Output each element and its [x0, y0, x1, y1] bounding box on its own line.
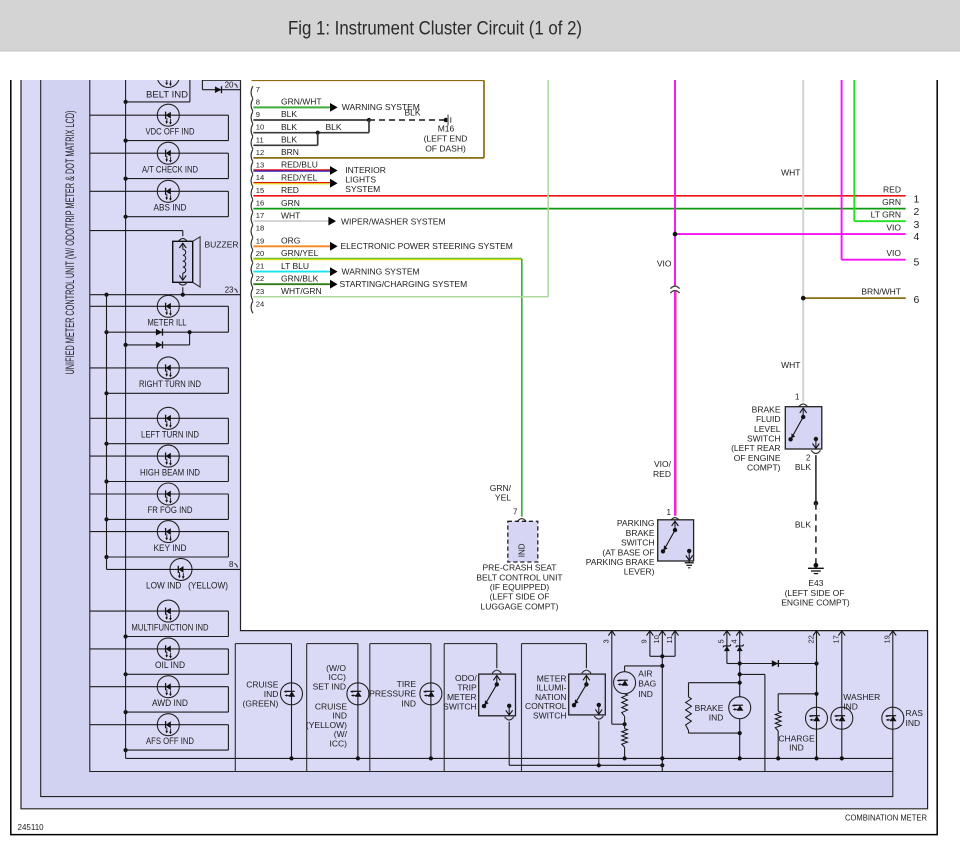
wire pin 22 GRN/BLK — [253, 283, 330, 285]
connector pin 20 bracket — [251, 250, 253, 262]
label CHARGE IND — [778, 733, 815, 752]
wire pin 19 ORG — [253, 245, 330, 247]
svg-text:IND: IND — [906, 718, 921, 728]
svg-text:SWITCH: SWITCH — [443, 701, 477, 711]
lamp LOW IND — [170, 558, 192, 580]
arrow to starting/charging (pin 22) — [330, 280, 338, 289]
wire BLK from brake fluid switch — [815, 455, 817, 503]
svg-text:HIGH BEAM IND: HIGH BEAM IND — [140, 467, 200, 477]
svg-text:WHT: WHT — [781, 360, 800, 370]
svg-text:CRUISE: CRUISE — [246, 680, 278, 690]
wire pin 3 stub — [612, 631, 625, 724]
lamp KEY IND — [157, 521, 179, 543]
svg-text:PARKING BRAKE: PARKING BRAKE — [586, 557, 655, 567]
bottom section top edge 2 — [307, 643, 358, 645]
svg-text:RIGHT TURN IND: RIGHT TURN IND — [139, 379, 201, 389]
svg-text:SWITCH: SWITCH — [533, 711, 567, 721]
node brake branch a — [738, 672, 742, 676]
pin 20 output wire with diode — [202, 78, 240, 90]
svg-text:8: 8 — [229, 560, 234, 569]
brake fluid switch labels — [731, 404, 781, 472]
svg-text:WHT/GRN: WHT/GRN — [281, 286, 322, 296]
svg-text:BRAKE: BRAKE — [752, 404, 781, 414]
pin 20 exit label — [225, 80, 238, 89]
buzzer pin bracket bottom — [178, 282, 187, 285]
svg-text:BLK: BLK — [281, 135, 297, 145]
node air bag feed junction — [660, 664, 664, 668]
wire pin 21 LT BLU — [253, 271, 330, 273]
lamp RAS IND — [882, 707, 904, 729]
pin 23 exit label — [225, 285, 238, 294]
parking brake pin bracket — [670, 518, 679, 521]
node air bag line to bus — [660, 756, 664, 760]
bottom section divider 2 — [306, 644, 308, 772]
svg-text:METER ILL: METER ILL — [148, 318, 187, 328]
svg-text:IND: IND — [789, 743, 804, 753]
svg-text:A/T CHECK IND: A/T CHECK IND — [142, 164, 198, 174]
svg-text:GRN/YEL: GRN/YEL — [281, 248, 319, 258]
meter pin 5 entry arrow — [724, 631, 731, 636]
wire pin 17 WHT — [253, 220, 328, 222]
brake fluid pin 2 bracket — [811, 450, 820, 453]
node pins 9-10-11 junction — [660, 654, 664, 658]
odo switch pin 2 bracket — [505, 717, 514, 720]
svg-text:PRE-CRASH SEAT: PRE-CRASH SEAT — [483, 563, 557, 573]
svg-text:BRN/WHT: BRN/WHT — [861, 287, 901, 297]
svg-text:21: 21 — [256, 262, 264, 271]
svg-text:WIPER/WASHER SYSTEM: WIPER/WASHER SYSTEM — [341, 217, 446, 227]
meter pin 10 entry arrow — [659, 631, 666, 636]
meter pin 22 entry arrow — [813, 631, 820, 636]
svg-text:(LEFT END: (LEFT END — [424, 134, 468, 144]
indicator block HIGH BEAM IND wiring — [90, 456, 229, 484]
wire pin 10 / air bag line — [661, 631, 663, 772]
meter pin 17 entry arrow — [838, 631, 845, 636]
connector pin 14 bracket — [251, 175, 253, 187]
indicator block VDC OFF IND wiring — [90, 115, 229, 143]
node odo return junction — [660, 763, 664, 767]
illum switch pin bracket — [582, 670, 591, 673]
label METER ILLUMINATION CONTROL SWITCH — [525, 673, 567, 720]
svg-text:22: 22 — [256, 274, 264, 283]
svg-text:LT BLU: LT BLU — [281, 261, 309, 271]
indicator block FR FOG IND wiring — [90, 494, 229, 522]
connector pin 18 bracket — [251, 225, 253, 237]
wire pin 16 GRN — [253, 208, 905, 210]
svg-text:4: 4 — [730, 639, 739, 643]
svg-text:AIR: AIR — [638, 668, 652, 678]
wire air bag to bus — [624, 747, 626, 758]
bottom section divider 4 — [443, 644, 445, 772]
junction bus B top — [104, 293, 108, 297]
bottom section divider 3 — [369, 644, 371, 772]
lamp LEFT TURN IND — [157, 407, 179, 429]
diode D1 on meter ill return — [156, 329, 163, 336]
svg-text:245110: 245110 — [18, 823, 45, 832]
svg-text:BLK: BLK — [405, 107, 421, 117]
wire pin 23 WHT/GRN — [253, 78, 548, 297]
illum switch pin 2 bracket — [594, 716, 603, 719]
svg-text:(LEFT SIDE OF: (LEFT SIDE OF — [490, 592, 550, 602]
meter pin 4 entry arrow — [736, 631, 743, 636]
svg-text:BRN: BRN — [281, 147, 299, 157]
node charge resistor to bus — [776, 756, 780, 760]
node illum return junction — [597, 763, 601, 767]
label CRUISE IND (YELLOW) (W/ ICC) — [306, 701, 348, 748]
header bar — [0, 0, 960, 51]
lamp CHARGE IND — [806, 707, 828, 729]
connector pin 19 bracket — [251, 238, 253, 250]
svg-text:PARKING: PARKING — [617, 518, 655, 528]
connector pin 13 bracket — [251, 162, 253, 174]
connector pin 11 bracket — [251, 137, 253, 149]
svg-text:22: 22 — [806, 635, 815, 643]
wire pin 11 stub — [662, 631, 675, 657]
svg-text:PRESSURE: PRESSURE — [369, 689, 416, 699]
svg-text:VIO/: VIO/ — [654, 459, 672, 469]
odo switch pin bracket — [492, 670, 501, 673]
svg-text:ICC): ICC) — [330, 739, 348, 749]
lamp SET IND / CRUISE IND — [347, 683, 369, 705]
wire pin 13 RED/BLU — [253, 170, 330, 171]
wire VIO vertical (pin 5) — [842, 78, 906, 260]
wire illum switch feed — [585, 644, 587, 669]
svg-text:19: 19 — [256, 236, 264, 245]
connector pin 12 bracket — [251, 149, 253, 161]
odo/trip meter switch — [479, 674, 516, 716]
node charge branch — [814, 692, 818, 696]
svg-text:MULTIFUNCTION IND: MULTIFUNCTION IND — [132, 622, 209, 632]
svg-text:SWITCH: SWITCH — [747, 434, 781, 444]
label ODO/TRIP METER SWITCH — [443, 673, 477, 712]
svg-text:RAS: RAS — [906, 708, 924, 718]
svg-text:13: 13 — [256, 161, 264, 170]
lamp METER ILL — [157, 295, 179, 317]
lamp BELT IND — [157, 66, 179, 88]
svg-text:YEL: YEL — [495, 493, 511, 503]
svg-text:VDC OFF IND: VDC OFF IND — [146, 126, 195, 136]
svg-text:GRN/BLK: GRN/BLK — [281, 273, 319, 283]
svg-text:BLK: BLK — [326, 122, 342, 132]
wire pin 20 GRN/YEL — [253, 258, 521, 516]
svg-text:TRIP: TRIP — [457, 682, 477, 692]
connector pin 21 bracket — [251, 263, 253, 275]
connector pin 24 bracket — [251, 301, 253, 313]
wire VIO vertical (to parking brake) — [674, 78, 676, 516]
svg-text:7: 7 — [256, 85, 260, 94]
svg-text:E43: E43 — [808, 578, 823, 588]
wire pin 19 line — [892, 631, 894, 759]
svg-text:10: 10 — [256, 123, 264, 132]
svg-text:BELT IND: BELT IND — [146, 90, 188, 100]
wire BRN/WHT (pin 6) — [803, 297, 906, 299]
label CRUISE IND (GREEN) — [243, 680, 279, 709]
connector pin 7 bracket — [251, 86, 253, 98]
lamp FR FOG IND — [157, 483, 179, 505]
inline connector on VIO wire — [670, 286, 680, 293]
wire dashed BLK to M16 — [369, 119, 446, 121]
node SET IND / CRUISE IND to bus — [356, 756, 360, 760]
resistor R3 brake ind parallel — [686, 683, 740, 733]
wire illum switch return — [598, 721, 600, 766]
brake fluid pin bracket — [799, 404, 808, 407]
indicator block ABS IND wiring — [90, 191, 229, 218]
arrow to interior lights (pin 14) — [330, 179, 338, 188]
svg-text:VIO: VIO — [886, 223, 901, 233]
indicator block LEFT TURN IND wiring — [90, 418, 229, 446]
wire LT GRN (pin 3) — [854, 78, 905, 221]
lamp BRAKE IND — [729, 697, 751, 719]
meter pin 19 entry arrow — [889, 631, 896, 636]
junction buzzer to pin 23 wire — [181, 293, 185, 297]
connector pin 9 bracket — [251, 111, 253, 123]
wire odo switch feed — [496, 644, 498, 669]
svg-text:(IF EQUIPPED): (IF EQUIPPED) — [490, 582, 550, 592]
node pin 22 to bus — [814, 756, 818, 760]
diode D3 to pin 22 line — [772, 660, 779, 667]
svg-text:IND: IND — [638, 689, 653, 699]
svg-text:LUGGAGE COMPT): LUGGAGE COMPT) — [481, 601, 559, 611]
wire r1-r2 link — [624, 716, 626, 728]
svg-text:GRN: GRN — [281, 198, 300, 208]
parking brake switch labels — [586, 518, 655, 577]
low ind wire — [107, 568, 241, 570]
label TIRE PRESSURE IND — [369, 679, 416, 708]
svg-text:LEVER): LEVER) — [624, 567, 655, 577]
svg-text:10: 10 — [652, 635, 661, 643]
svg-text:20: 20 — [256, 249, 264, 258]
svg-text:OF DASH): OF DASH) — [425, 143, 466, 153]
svg-text:IND: IND — [264, 689, 279, 699]
wire WHT vertical — [802, 78, 804, 402]
svg-text:5: 5 — [914, 256, 920, 268]
label VIO/RED — [653, 459, 672, 479]
bottom section top edge 4 — [444, 643, 497, 645]
indicator block AWD IND wiring — [90, 687, 229, 715]
arrow to warning system (pin 21) — [330, 267, 338, 276]
parking brake switch — [658, 520, 694, 561]
label M16 location — [424, 134, 468, 154]
wire pin 11 BLK — [253, 133, 317, 146]
svg-text:BAG: BAG — [638, 679, 656, 689]
svg-text:KEY IND: KEY IND — [154, 543, 187, 553]
svg-text:SYSTEM: SYSTEM — [345, 184, 380, 194]
svg-text:OIL IND: OIL IND — [155, 660, 185, 670]
svg-text:WARNING SYSTEM: WARNING SYSTEM — [342, 267, 420, 277]
svg-text:UNIFIED METER CONTROL UNIT (W/: UNIFIED METER CONTROL UNIT (W/ ODO/TRIP … — [65, 110, 77, 374]
svg-text:LT GRN: LT GRN — [871, 210, 901, 220]
svg-text:ABS IND: ABS IND — [154, 203, 187, 213]
zener diode on pin 4 stub — [736, 645, 744, 652]
buzzer output wire — [182, 287, 184, 295]
wire pin 15 RED — [253, 195, 905, 197]
svg-text:GRN/: GRN/ — [490, 483, 512, 493]
indicator block OIL IND wiring — [90, 649, 229, 677]
parking brake ground — [685, 561, 694, 568]
indicator block A/T CHECK IND wiring — [90, 153, 229, 181]
svg-text:WHT: WHT — [281, 210, 300, 220]
svg-text:1: 1 — [914, 193, 920, 205]
svg-text:3: 3 — [602, 639, 611, 643]
svg-text:5: 5 — [717, 639, 726, 643]
connector pin 10 bracket — [251, 124, 253, 136]
svg-text:17: 17 — [256, 211, 264, 220]
zener diode on pin 5 stub — [723, 645, 731, 652]
svg-text:BELT CONTROL UNIT: BELT CONTROL UNIT — [476, 572, 562, 582]
indicator block MULTIFUNCTION IND wiring — [90, 611, 229, 639]
svg-text:7: 7 — [513, 507, 518, 516]
bus B vertical — [106, 295, 108, 570]
svg-text:1: 1 — [795, 393, 800, 402]
svg-text:1: 1 — [667, 508, 672, 517]
connector pin 16 bracket — [251, 200, 253, 212]
buzzer pin bracket top — [178, 239, 187, 242]
label RAS IND — [906, 708, 924, 728]
node TIRE PRESSURE IND to bus — [429, 756, 433, 760]
svg-text:COMPT): COMPT) — [747, 463, 781, 473]
svg-text:SWITCH: SWITCH — [621, 538, 655, 548]
wire pin 9 BLK — [253, 119, 369, 121]
ground E43 — [808, 563, 824, 574]
node brake loop bottom — [738, 731, 742, 735]
bottom bus wire — [126, 758, 893, 771]
svg-text:RED: RED — [883, 184, 901, 194]
svg-text:RED: RED — [653, 469, 671, 479]
svg-text:(LEFT REAR: (LEFT REAR — [731, 443, 780, 453]
node brake to bus — [738, 756, 742, 760]
lamp AIR BAG IND — [614, 672, 636, 694]
svg-text:OF ENGINE: OF ENGINE — [734, 453, 781, 463]
connector pin 22 bracket — [251, 276, 253, 288]
node pin 17 to bus — [840, 756, 844, 760]
diode D2 on branch row — [156, 341, 163, 348]
label BRAKE IND — [695, 703, 724, 723]
bottom section divider 5 — [521, 644, 523, 772]
meter pin 3 entry arrow — [608, 631, 615, 636]
indicator block AFS OFF IND wiring — [90, 725, 229, 753]
svg-text:BRAKE: BRAKE — [626, 528, 655, 538]
resistor R2 air bag — [622, 729, 628, 748]
connector pin 8 bracket — [251, 99, 253, 111]
svg-text:LEVEL: LEVEL — [754, 424, 781, 434]
svg-text:ODO/: ODO/ — [455, 673, 477, 683]
svg-text:(LEFT SIDE OF: (LEFT SIDE OF — [785, 588, 845, 598]
wire air bag feed — [625, 666, 663, 672]
wire pin 4 stub — [739, 631, 741, 664]
arrow to power steering (pin 19) — [330, 242, 338, 251]
svg-text:3: 3 — [914, 219, 920, 231]
svg-text:17: 17 — [832, 635, 841, 643]
svg-text:VIO: VIO — [886, 248, 901, 258]
pin 8 exit label — [229, 560, 237, 569]
svg-text:BUZZER: BUZZER — [205, 240, 239, 250]
svg-text:IND: IND — [518, 543, 527, 557]
meter pin 11 entry arrow — [672, 631, 679, 636]
indicator block METER ILL wiring — [90, 306, 229, 334]
svg-text:GRN/WHT: GRN/WHT — [281, 97, 322, 107]
svg-text:LEFT TURN IND: LEFT TURN IND — [141, 430, 199, 440]
svg-text:AWD IND: AWD IND — [152, 698, 188, 708]
svg-text:RED/YEL: RED/YEL — [281, 172, 318, 182]
wire odo switch return — [509, 722, 662, 766]
connector pin 23 bracket — [251, 288, 253, 300]
svg-text:6: 6 — [914, 294, 920, 306]
svg-text:BLK: BLK — [281, 122, 297, 132]
arrow to warning system (pin 8) — [330, 103, 338, 112]
wire pin 12 BRN — [252, 80, 485, 158]
svg-text:M16: M16 — [438, 123, 455, 133]
bus A vertical — [125, 78, 127, 758]
svg-text:8: 8 — [256, 97, 260, 106]
resistor R1 air bag — [622, 694, 628, 717]
meter pin 9 entry arrow — [647, 631, 654, 636]
svg-text:IND: IND — [401, 698, 416, 708]
indicator block RIGHT TURN IND wiring — [90, 368, 229, 396]
svg-text:STARTING/CHARGING SYSTEM: STARTING/CHARGING SYSTEM — [340, 279, 468, 289]
svg-text:WASHER: WASHER — [843, 692, 880, 702]
pre-crash unit labels — [476, 563, 562, 612]
diode on pin 20 wire — [215, 86, 222, 93]
node WHT to BRN/WHT junction — [801, 296, 806, 301]
arrow to interior lights (pin 13) — [330, 166, 338, 175]
bottom section top edge 3 — [370, 643, 431, 645]
svg-text:15: 15 — [256, 186, 264, 195]
ground M16 — [444, 115, 452, 126]
lamp TIRE PRESSURE IND — [420, 683, 442, 705]
wire pin 8 GRN/WHT — [253, 106, 330, 108]
lamp HIGH BEAM IND — [157, 445, 179, 467]
label AIR BAG IND — [638, 668, 656, 699]
svg-text:11: 11 — [665, 636, 674, 644]
svg-text:2: 2 — [914, 206, 920, 218]
charge resistor branch — [775, 694, 816, 759]
svg-text:IND: IND — [843, 702, 858, 712]
wire BLK dashed to E43 — [815, 503, 817, 565]
wire VIO/RED red stripe — [675, 291, 677, 516]
svg-text:AFS OFF IND: AFS OFF IND — [146, 736, 194, 746]
wire pin 5 stub — [727, 631, 740, 664]
svg-text:23: 23 — [256, 287, 264, 296]
svg-text:2: 2 — [806, 453, 811, 462]
svg-text:24: 24 — [256, 300, 264, 309]
lamp AWD IND — [157, 676, 179, 698]
pre-crash seat belt control unit box — [508, 521, 538, 562]
svg-text:LOW IND (YELLOW): LOW IND (YELLOW) — [146, 580, 228, 590]
bottom section divider 1 — [234, 644, 236, 772]
svg-text:FR FOG IND: FR FOG IND — [148, 505, 193, 515]
wire pin 17 line — [841, 631, 843, 759]
unified meter control unit box — [41, 78, 893, 797]
svg-text:4: 4 — [914, 231, 920, 243]
svg-text:GRN: GRN — [882, 197, 901, 207]
label WASHER IND — [843, 692, 880, 712]
svg-text:9: 9 — [256, 110, 260, 119]
wire brake column upper — [739, 664, 741, 698]
bottom section top edge 1 — [235, 643, 291, 645]
svg-text:(AT BASE OF: (AT BASE OF — [602, 547, 654, 557]
lamp A/T CHECK IND — [157, 142, 179, 164]
svg-text:RED/BLU: RED/BLU — [281, 160, 318, 170]
node splice pins 10-11 — [316, 131, 320, 135]
lamp AFS OFF IND — [157, 714, 179, 736]
indicator block BELT IND wiring — [124, 78, 190, 104]
svg-text:METER: METER — [447, 692, 477, 702]
wire pin 14 RED/YEL — [253, 183, 330, 184]
lamp RIGHT TURN IND — [157, 357, 179, 379]
diode branch row — [124, 332, 190, 347]
indicator block KEY IND wiring — [90, 532, 229, 560]
svg-text:TIRE: TIRE — [397, 679, 417, 689]
